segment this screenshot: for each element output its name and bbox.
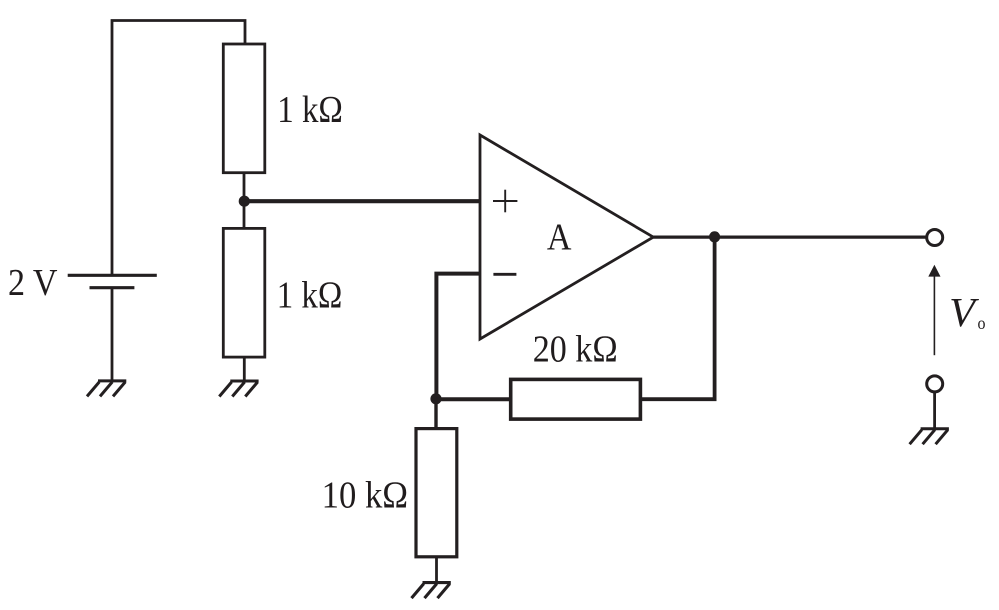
ground G1 <box>87 381 126 397</box>
minus input marker <box>493 273 516 276</box>
resistor R2 1 kOhm <box>223 228 264 357</box>
wire node B to R4 left <box>436 397 511 401</box>
resistor R4 20 kOhm <box>511 379 641 419</box>
label V_o <box>949 289 986 335</box>
svg-text:10 kΩ: 10 kΩ <box>322 475 409 517</box>
arrow Vo <box>928 265 940 355</box>
op-amp U1 <box>480 135 653 339</box>
wire R2 bottom to ground <box>243 357 246 381</box>
ground G3 <box>412 583 451 599</box>
resistor R1 1 kOhm <box>223 44 264 173</box>
node A <box>239 196 250 207</box>
wire terminal to ground <box>933 392 936 429</box>
wire battery top to R1 top <box>112 21 245 276</box>
node B <box>430 393 441 404</box>
wire battery bottom to ground <box>111 288 114 381</box>
terminal Vo minus <box>927 376 943 392</box>
wire op-amp output to terminal <box>653 236 927 239</box>
svg-text:2 V: 2 V <box>8 262 58 304</box>
wire node B down to R3 top <box>434 399 437 429</box>
battery V1 <box>68 275 157 287</box>
svg-text:A: A <box>547 217 572 259</box>
wire node A to op-amp plus input <box>244 199 480 203</box>
wire minus input stub and feedback vertical <box>436 274 480 399</box>
wire R4 right riser to output <box>640 237 714 399</box>
terminal Vo plus <box>927 230 943 246</box>
resistor R3 10 kOhm <box>416 429 457 557</box>
wire node A to R2 top <box>243 201 246 228</box>
svg-text:V: V <box>949 289 979 335</box>
svg-text:1 kΩ: 1 kΩ <box>277 89 343 131</box>
svg-text:20 kΩ: 20 kΩ <box>533 329 618 371</box>
svg-text:o: o <box>978 313 986 333</box>
node C <box>709 231 720 242</box>
ground G2 <box>219 381 258 397</box>
wire R1 bottom to node A <box>243 173 246 202</box>
plus input marker <box>493 190 517 213</box>
ground G4 <box>910 429 949 445</box>
wire R3 bottom to ground <box>435 557 438 583</box>
svg-text:1 kΩ: 1 kΩ <box>277 275 343 317</box>
